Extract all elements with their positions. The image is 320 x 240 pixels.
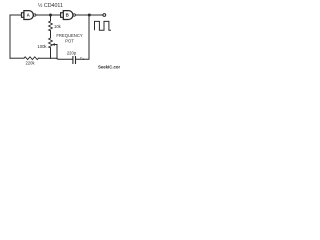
svg-text:C1: C1 xyxy=(80,56,85,61)
junction node dot xyxy=(49,14,52,17)
output terminal circle xyxy=(103,14,106,17)
wire: bottom rail left segment xyxy=(10,57,24,59)
wire: bottom rail middle segment xyxy=(38,58,72,59)
svg-text:220p: 220p xyxy=(67,50,77,55)
svg-text:10k: 10k xyxy=(54,24,62,29)
svg-text:100k: 100k xyxy=(37,44,47,49)
gate B output bubble xyxy=(73,14,75,16)
gate A output bubble xyxy=(34,14,36,16)
resistor 220k (horizontal zigzag) xyxy=(24,57,38,60)
potentiometer 100k resistor body (vertical zigzag) xyxy=(49,38,53,48)
wire: pot bottom to bottom rail xyxy=(50,48,52,59)
wire: gate B output to output terminal xyxy=(76,14,103,16)
wire: between 10k and pot xyxy=(50,31,52,38)
wire: gate A output to gate B input xyxy=(36,14,60,16)
square wave symbol xyxy=(95,21,112,30)
gate A body xyxy=(24,11,33,20)
potentiometer arrowhead xyxy=(52,43,55,46)
svg-text:220k: 220k xyxy=(25,60,35,65)
wire: gate A input to left rail down to bottom xyxy=(10,15,21,58)
gate B body xyxy=(63,11,73,20)
potentiometer wiper tail to bottom rail xyxy=(56,45,58,59)
potentiometer wiper arrow xyxy=(54,44,57,46)
gate B input tie bracket xyxy=(61,13,63,18)
resistor 10k (vertical zigzag) xyxy=(49,21,53,31)
capacitor C1 plates xyxy=(73,57,76,64)
gate A input tie bracket xyxy=(22,13,24,18)
wire: node between gates down to 10k xyxy=(50,15,52,21)
junction node dot at right rail xyxy=(88,14,91,17)
svg-text:½ CD4011: ½ CD4011 xyxy=(38,2,63,9)
svg-text:B: B xyxy=(66,13,69,18)
wire: bottom rail right segment up to top node xyxy=(76,15,89,59)
svg-text:POT: POT xyxy=(65,38,74,43)
svg-text:SeekIC.com: SeekIC.com xyxy=(98,65,120,70)
